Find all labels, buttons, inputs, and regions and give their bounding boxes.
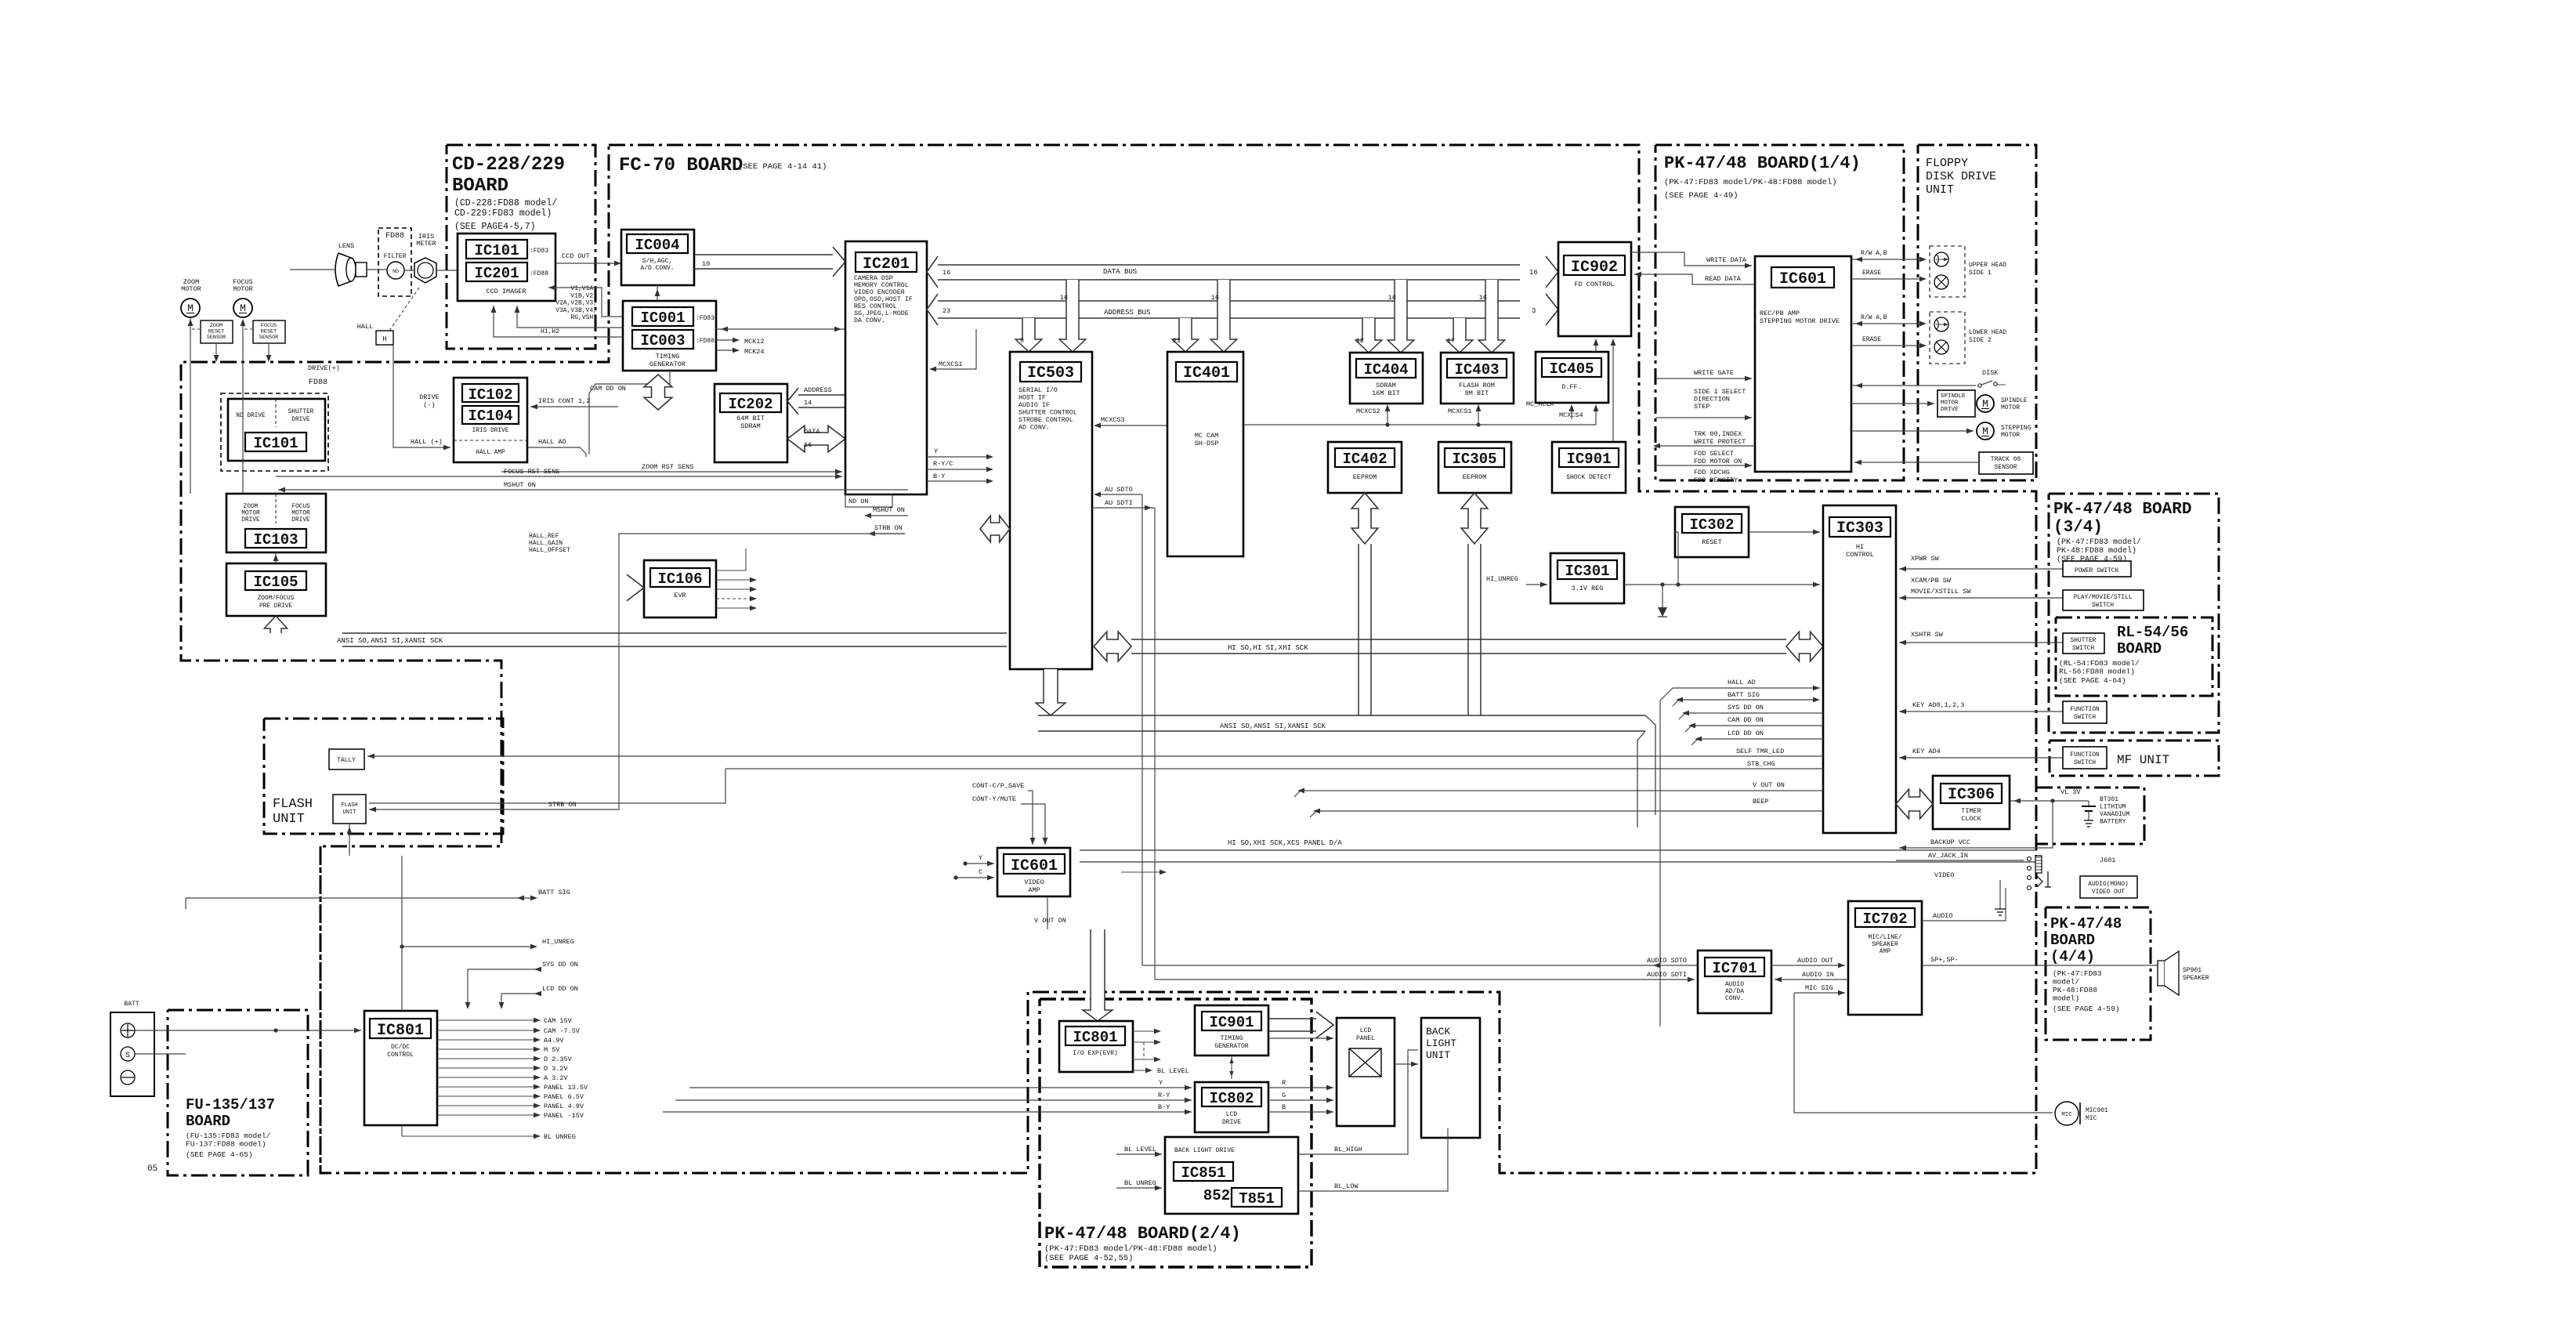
IC601 video amp bbox=[997, 848, 1070, 896]
ground at jack bbox=[2005, 888, 2006, 909]
IC101 ND/shutter drive bbox=[221, 393, 328, 471]
svg-text:SIDE 1: SIDE 1 bbox=[1969, 270, 1992, 277]
svg-text:HALL: HALL bbox=[357, 323, 373, 331]
svg-text:AU SDTO: AU SDTO bbox=[1105, 486, 1133, 494]
svg-text:UNIT: UNIT bbox=[343, 809, 356, 816]
svg-text:ZOOM/FOCUS: ZOOM/FOCUS bbox=[258, 596, 295, 602]
small double arrow IC901-IC802 bbox=[1231, 1055, 1232, 1079]
svg-text:FDD XDCHG: FDD XDCHG bbox=[1694, 469, 1730, 476]
svg-text:C: C bbox=[979, 868, 982, 876]
svg-text:GENERATOR: GENERATOR bbox=[1214, 1043, 1248, 1050]
svg-text:SPEAKER: SPEAKER bbox=[2183, 975, 2209, 982]
svg-text:ND ON: ND ON bbox=[848, 498, 869, 505]
svg-text:(CD-228:FD88 model/: (CD-228:FD88 model/ bbox=[454, 198, 557, 208]
svg-text:AUDIO(MONO): AUDIO(MONO) bbox=[2088, 882, 2128, 888]
IC106 outputs bbox=[716, 549, 746, 570]
svg-text:16: 16 bbox=[942, 269, 950, 277]
svg-text:FC-70 BOARD: FC-70 BOARD bbox=[619, 155, 743, 176]
svg-text:AD/DA: AD/DA bbox=[1725, 988, 1744, 995]
rail PANEL 6.5V bbox=[437, 1095, 537, 1097]
svg-text:HALL_OFFSET: HALL_OFFSET bbox=[529, 547, 570, 554]
svg-text:Y: Y bbox=[1159, 1079, 1163, 1087]
svg-text:MSHUT ON: MSHUT ON bbox=[873, 506, 905, 514]
svg-text:IC106: IC106 bbox=[657, 570, 702, 588]
svg-text:STROBE CONTROL: STROBE CONTROL bbox=[1018, 417, 1073, 424]
svg-text:CAM DD ON: CAM DD ON bbox=[590, 385, 626, 393]
svg-text:(SEE PAGE 4-59): (SEE PAGE 4-59) bbox=[2053, 1005, 2120, 1013]
svg-text:IC902: IC902 bbox=[1571, 259, 1618, 277]
wires batt to IC801 bbox=[135, 1030, 361, 1031]
svg-text:EEPROM: EEPROM bbox=[1353, 473, 1377, 481]
svg-text:IC601: IC601 bbox=[1011, 857, 1058, 875]
svg-text:BEEP: BEEP bbox=[1753, 798, 1768, 806]
bundle verticals left of IC303 bbox=[1660, 694, 1666, 1027]
svg-text:SPEAKER: SPEAKER bbox=[1872, 941, 1898, 948]
svg-text:SPINDLE: SPINDLE bbox=[2001, 397, 2028, 404]
svg-text:WRITE GATE: WRITE GATE bbox=[1694, 369, 1734, 377]
svg-text::FD83: :FD83 bbox=[530, 248, 548, 255]
svg-text:IC851: IC851 bbox=[1181, 1164, 1225, 1182]
svg-text:XPWR SW: XPWR SW bbox=[1911, 555, 1940, 563]
svg-text:CD-228/229: CD-228/229 bbox=[452, 154, 565, 176]
IC402 EEPROM bbox=[1328, 442, 1402, 493]
svg-text:05: 05 bbox=[147, 1164, 157, 1174]
svg-text:3.1V REG: 3.1V REG bbox=[1572, 585, 1604, 592]
svg-text:(SEE PAGE 4-64): (SEE PAGE 4-64) bbox=[2059, 676, 2126, 685]
svg-text:IRIS CONT 1,2: IRIS CONT 1,2 bbox=[538, 397, 590, 405]
svg-text:STEPPING: STEPPING bbox=[2001, 425, 2031, 432]
svg-text:MCXCS1: MCXCS1 bbox=[1448, 407, 1472, 415]
svg-text:23: 23 bbox=[942, 307, 950, 315]
svg-text:(FU-135:FD83 model/: (FU-135:FD83 model/ bbox=[186, 1132, 271, 1140]
svg-text:DRIVE(+): DRIVE(+) bbox=[308, 364, 340, 372]
svg-text:DRIVE: DRIVE bbox=[1941, 407, 1959, 413]
svg-text:BATT: BATT bbox=[124, 1001, 139, 1008]
svg-text:A 3.2V: A 3.2V bbox=[544, 1074, 569, 1082]
svg-text:CCD OUT: CCD OUT bbox=[562, 252, 590, 260]
svg-text:DRIVE: DRIVE bbox=[241, 517, 260, 523]
spindle motor drive bbox=[1937, 390, 1975, 417]
svg-text:PANEL 6.5V: PANEL 6.5V bbox=[544, 1093, 584, 1101]
svg-text:AUDIO: AUDIO bbox=[1725, 981, 1744, 988]
svg-text:PK-48:FD88 model): PK-48:FD88 model) bbox=[2057, 546, 2136, 556]
svg-text:MCXCS4: MCXCS4 bbox=[1559, 411, 1583, 419]
svg-text:LCD DD ON: LCD DD ON bbox=[542, 985, 578, 993]
svg-text:PK-47/48 BOARD(2/4): PK-47/48 BOARD(2/4) bbox=[1044, 1224, 1241, 1244]
board PK-47/48 (1/4) outline bbox=[1655, 145, 1904, 480]
BL UNREG out bbox=[402, 1125, 537, 1136]
wire TG to IC201 bidirectional bbox=[716, 328, 845, 330]
svg-text:VANADIUM: VANADIUM bbox=[2100, 811, 2130, 818]
svg-text:AUDIO OUT: AUDIO OUT bbox=[1797, 957, 1833, 965]
svg-text:IC801: IC801 bbox=[377, 1022, 424, 1040]
svg-text:SG,JPEG,L-MODE: SG,JPEG,L-MODE bbox=[854, 310, 909, 317]
svg-text:MC_HCLK: MC_HCLK bbox=[1526, 400, 1555, 408]
svg-text:DRIVE: DRIVE bbox=[419, 393, 440, 401]
board RL-54/56 outline bbox=[2056, 617, 2212, 696]
svg-text:BATT SIG: BATT SIG bbox=[538, 889, 570, 896]
svg-text:IC105: IC105 bbox=[253, 574, 298, 591]
svg-text:D.FF.: D.FF. bbox=[1561, 383, 1582, 391]
svg-text:(SEE PAGE 4-14 41): (SEE PAGE 4-14 41) bbox=[738, 162, 827, 172]
IC201 camera DSP bbox=[845, 241, 927, 494]
svg-text:IC802: IC802 bbox=[1209, 1090, 1254, 1107]
svg-text:S/H,AGC,: S/H,AGC, bbox=[642, 258, 672, 265]
svg-text:UNIT: UNIT bbox=[273, 812, 305, 827]
svg-text:LCD DD ON: LCD DD ON bbox=[1728, 730, 1764, 737]
jack symbol bbox=[2028, 857, 2031, 861]
lens bbox=[290, 269, 335, 270]
svg-text:UNIT: UNIT bbox=[1426, 1049, 1450, 1061]
bus ADDRESS 14 bbox=[787, 388, 798, 415]
svg-text:KEY AD4: KEY AD4 bbox=[1912, 748, 1941, 755]
svg-text:LENS: LENS bbox=[338, 242, 354, 250]
svg-text:IC901: IC901 bbox=[1209, 1014, 1254, 1031]
svg-text:V2A,V2B,V3,: V2A,V2B,V3, bbox=[555, 300, 597, 307]
svg-text:D 3.2V: D 3.2V bbox=[544, 1065, 569, 1073]
svg-text:IC402: IC402 bbox=[1342, 451, 1387, 468]
svg-text:HOST IF: HOST IF bbox=[1018, 395, 1046, 402]
svg-text:16: 16 bbox=[1529, 269, 1538, 277]
svg-text:MOTOR: MOTOR bbox=[1941, 400, 1959, 407]
svg-text:M: M bbox=[187, 302, 194, 314]
svg-text:(-): (-) bbox=[423, 401, 435, 409]
svg-text:AV_JACK_IN: AV_JACK_IN bbox=[1928, 852, 1968, 860]
bus 10 IC004 to IC201 bbox=[694, 254, 833, 255]
svg-text:FU-135/137: FU-135/137 bbox=[186, 1096, 275, 1113]
svg-text:D 2.35V: D 2.35V bbox=[544, 1055, 573, 1063]
svg-text:(4/4): (4/4) bbox=[2050, 948, 2095, 965]
rail M 5V bbox=[437, 1048, 537, 1050]
svg-text:STB_CHG: STB_CHG bbox=[1747, 760, 1775, 768]
MIC mic901 bbox=[2055, 1102, 2079, 1125]
IC503 serial I/O bbox=[1010, 352, 1092, 669]
svg-text:64M BIT: 64M BIT bbox=[736, 415, 765, 422]
svg-text:TIMING: TIMING bbox=[656, 353, 680, 360]
svg-text:MCK24: MCK24 bbox=[744, 348, 765, 356]
bus drop to IC404 (12) bbox=[1355, 318, 1382, 353]
svg-text:SHUTTER: SHUTTER bbox=[288, 409, 314, 415]
svg-text:RESET: RESET bbox=[1702, 538, 1722, 546]
IC801 outputs small arrows bbox=[1133, 1030, 1158, 1032]
svg-text:model): model) bbox=[2053, 994, 2079, 1003]
svg-text:PK-48:FD88: PK-48:FD88 bbox=[2053, 986, 2097, 994]
svg-text:CAM 15V: CAM 15V bbox=[544, 1017, 573, 1025]
lower head side 2 bbox=[1930, 312, 1965, 364]
svg-text:DIRECTION: DIRECTION bbox=[1694, 396, 1730, 404]
svg-text:BOARD: BOARD bbox=[186, 1113, 230, 1130]
svg-text:MOTOR: MOTOR bbox=[233, 285, 253, 293]
IC004 S/H AGC A/D bbox=[621, 230, 694, 285]
svg-text:(SEE PAGE 4-49): (SEE PAGE 4-49) bbox=[1664, 191, 1738, 201]
shutter switch bbox=[2063, 633, 2104, 654]
play/movie/still switch bbox=[2063, 590, 2144, 610]
svg-text:IC301: IC301 bbox=[1565, 563, 1609, 580]
svg-text:XSHTR SW: XSHTR SW bbox=[1911, 631, 1944, 639]
svg-text::FD88: :FD88 bbox=[696, 338, 715, 345]
svg-text:SYS DD ON: SYS DD ON bbox=[1728, 704, 1764, 712]
rail A4.9V bbox=[437, 1039, 537, 1041]
svg-text:G: G bbox=[1282, 1092, 1286, 1099]
svg-text:HI_UNREG: HI_UNREG bbox=[1486, 575, 1518, 583]
svg-text:IC001: IC001 bbox=[640, 310, 685, 327]
IC404 SDRAM 16M BIT bbox=[1350, 353, 1423, 404]
board FC-70 outline bbox=[181, 145, 2036, 1173]
rail PANEL -15V bbox=[437, 1114, 537, 1116]
svg-text:PK-47/48 BOARD: PK-47/48 BOARD bbox=[2053, 501, 2191, 519]
svg-text:R-Y: R-Y bbox=[1158, 1092, 1170, 1099]
svg-text:IC401: IC401 bbox=[1183, 364, 1230, 382]
svg-text:DRIVE: DRIVE bbox=[291, 517, 310, 523]
rail D 3.2V bbox=[437, 1067, 537, 1069]
svg-text:T851: T851 bbox=[1239, 1190, 1275, 1208]
svg-text:HI SO,XHI SCK,XCS PANEL D/A: HI SO,XHI SCK,XCS PANEL D/A bbox=[1228, 839, 1342, 847]
back light unit bbox=[1421, 1018, 1480, 1138]
svg-text:RL-56:FD88 model): RL-56:FD88 model) bbox=[2059, 668, 2135, 676]
svg-text:SENSOR: SENSOR bbox=[1995, 464, 2017, 471]
svg-text:ND: ND bbox=[393, 269, 399, 274]
svg-text:SP901: SP901 bbox=[2183, 967, 2202, 974]
svg-text:PRE DRIVE: PRE DRIVE bbox=[259, 603, 292, 610]
svg-text:CONT-C/P_SAVE: CONT-C/P_SAVE bbox=[972, 782, 1024, 790]
svg-text:AUDIO IF: AUDIO IF bbox=[1018, 402, 1050, 409]
svg-text:DISK: DISK bbox=[1982, 369, 1999, 377]
svg-text:M: M bbox=[1982, 425, 1988, 437]
board CD-228/229 outline bbox=[447, 145, 595, 349]
svg-text:IC404: IC404 bbox=[1363, 361, 1408, 378]
svg-text:VL 3V: VL 3V bbox=[2060, 788, 2081, 796]
svg-text:MOTOR: MOTOR bbox=[2001, 432, 2020, 439]
svg-text:R/W A,B: R/W A,B bbox=[1861, 314, 1887, 321]
svg-text:DISK DRIVE: DISK DRIVE bbox=[1926, 170, 1996, 183]
rail CAM -7.5V bbox=[437, 1030, 537, 1031]
svg-text:SELF TMR_LED: SELF TMR_LED bbox=[1736, 748, 1784, 755]
svg-text:SIDE 1 SELECT: SIDE 1 SELECT bbox=[1694, 388, 1746, 396]
svg-text:M 5V: M 5V bbox=[544, 1046, 560, 1054]
svg-text:FOCUS: FOCUS bbox=[291, 504, 310, 510]
svg-text:ANSI SO,ANSI SI,XANSI SCK: ANSI SO,ANSI SI,XANSI SCK bbox=[337, 637, 443, 645]
IC601 REC/PB AMP stepping motor drive bbox=[1755, 256, 1851, 472]
svg-text:PANEL 4.9V: PANEL 4.9V bbox=[544, 1103, 584, 1110]
wires motors to IC103 bbox=[190, 317, 251, 491]
svg-text:READ DATA: READ DATA bbox=[1705, 275, 1742, 283]
svg-text:STEP: STEP bbox=[1694, 403, 1709, 411]
bus drop to IC401 (23) bbox=[1172, 318, 1199, 352]
svg-text:GENERATOR: GENERATOR bbox=[649, 360, 686, 368]
svg-text:LIGHT: LIGHT bbox=[1426, 1037, 1456, 1049]
rail D 2.35V bbox=[437, 1058, 537, 1059]
svg-text:BACK LIGHT DRIVE: BACK LIGHT DRIVE bbox=[1174, 1147, 1235, 1154]
svg-text:16: 16 bbox=[1211, 294, 1219, 302]
svg-text:HALL (+): HALL (+) bbox=[411, 438, 443, 446]
svg-text:A4.9V: A4.9V bbox=[544, 1037, 564, 1045]
svg-text:(PK-47:FD83 model/: (PK-47:FD83 model/ bbox=[2057, 538, 2141, 547]
IC401 MC CAM SH-DSP bbox=[1167, 352, 1243, 556]
svg-text:17: 17 bbox=[1447, 337, 1455, 345]
svg-text:IC101: IC101 bbox=[474, 242, 519, 259]
svg-text:FD88: FD88 bbox=[385, 232, 404, 241]
svg-text:FLASH: FLASH bbox=[273, 797, 313, 812]
batt terminal bbox=[110, 1012, 154, 1096]
IC801 DC/DC control bbox=[364, 1011, 437, 1125]
bus drop to IC404 (16) bbox=[1387, 280, 1414, 353]
svg-text:ZOOM RST SENS: ZOOM RST SENS bbox=[642, 463, 693, 471]
track 00 sensor bbox=[1979, 452, 2033, 474]
svg-text:TIMER: TIMER bbox=[1961, 807, 1981, 815]
svg-text::FD83: :FD83 bbox=[696, 315, 715, 322]
svg-text:FLASH ROM: FLASH ROM bbox=[1459, 382, 1495, 389]
svg-text:PLAY/MOVIE/STILL: PLAY/MOVIE/STILL bbox=[2074, 595, 2133, 601]
AU SDTO/SDTI verticals down to IC701 bbox=[1141, 494, 1143, 965]
bus drop to IC403 (16) bbox=[1478, 280, 1505, 353]
svg-text:FDD SELECT: FDD SELECT bbox=[1694, 450, 1734, 458]
svg-text:SWITCH: SWITCH bbox=[2072, 646, 2094, 652]
svg-text:SH-DSP: SH-DSP bbox=[1195, 440, 1219, 447]
svg-text:CAMERA DSP: CAMERA DSP bbox=[854, 275, 893, 282]
svg-text:BL UNREG: BL UNREG bbox=[544, 1133, 576, 1141]
svg-text:CONTROL: CONTROL bbox=[387, 1052, 414, 1059]
svg-text:CD-229:FD83 model): CD-229:FD83 model) bbox=[454, 208, 552, 219]
svg-text:PK-47/48: PK-47/48 bbox=[2050, 915, 2122, 932]
svg-text:IC103: IC103 bbox=[253, 531, 298, 549]
svg-text:DRIVE: DRIVE bbox=[291, 417, 310, 423]
svg-text:IC701: IC701 bbox=[1712, 960, 1757, 977]
svg-text:LOWER HEAD: LOWER HEAD bbox=[1969, 329, 2006, 336]
svg-text:FOCUS RST SENS: FOCUS RST SENS bbox=[504, 468, 559, 476]
svg-text:FU-137:FD88 model): FU-137:FD88 model) bbox=[186, 1140, 266, 1149]
svg-text:SDRAM: SDRAM bbox=[740, 422, 761, 430]
wires from IC106/EVR right to IC503 area verticals bbox=[662, 549, 664, 862]
svg-text:RL-54/56: RL-54/56 bbox=[2117, 624, 2188, 641]
svg-text:SERIAL I/O: SERIAL I/O bbox=[1018, 386, 1058, 394]
svg-text:MC CAM: MC CAM bbox=[1195, 432, 1219, 440]
svg-text:IC302: IC302 bbox=[1689, 516, 1734, 534]
svg-text:BL_LOW: BL_LOW bbox=[1334, 1182, 1359, 1190]
svg-text:KEY AD0,1,2,3: KEY AD0,1,2,3 bbox=[1912, 701, 1964, 709]
svg-text:SHOCK DETECT: SHOCK DETECT bbox=[1566, 474, 1612, 481]
svg-text:9: 9 bbox=[1020, 337, 1024, 345]
IC306 timer clock bbox=[1933, 776, 2010, 829]
svg-text:HI SO,HI SI,XHI SCK: HI SO,HI SI,XHI SCK bbox=[1228, 644, 1308, 652]
svg-text:16: 16 bbox=[804, 441, 812, 449]
IC801 I/O EXP(EVR) bbox=[1059, 1021, 1133, 1072]
svg-text:BL LEVEL: BL LEVEL bbox=[1157, 1067, 1189, 1075]
IC103 zoom/focus motor drive bbox=[226, 494, 326, 552]
svg-text:AUDIO: AUDIO bbox=[1933, 912, 1953, 920]
svg-text:SDRAM: SDRAM bbox=[1376, 382, 1396, 389]
svg-text:EVR: EVR bbox=[674, 592, 686, 599]
svg-text:M: M bbox=[1982, 398, 1988, 410]
big hollow arrow down to IC801 I/O EXP bbox=[1083, 929, 1113, 1021]
CCD imager IC101/IC201 bbox=[458, 234, 555, 301]
svg-text:V OUT ON: V OUT ON bbox=[1753, 781, 1785, 789]
svg-text:MIC: MIC bbox=[2061, 1112, 2072, 1118]
svg-text:HALL AD: HALL AD bbox=[538, 438, 566, 446]
svg-text:12: 12 bbox=[1356, 337, 1364, 345]
svg-text:MOVIE/XSTILL SW: MOVIE/XSTILL SW bbox=[1911, 588, 1971, 596]
svg-text:B-Y: B-Y bbox=[933, 473, 945, 480]
IC302 reset bbox=[1675, 507, 1749, 557]
svg-text:FLOPPY: FLOPPY bbox=[1926, 157, 1968, 170]
svg-text:FLASH: FLASH bbox=[341, 802, 357, 809]
svg-text:SWITCH: SWITCH bbox=[2074, 760, 2096, 766]
svg-text:(PK-47:FD83 model/PK-48:FD88 m: (PK-47:FD83 model/PK-48:FD88 model) bbox=[1044, 1244, 1217, 1254]
svg-text:16M BIT: 16M BIT bbox=[1372, 389, 1400, 397]
vertical wires x 926/977 bbox=[725, 769, 726, 803]
svg-text:DRIVE: DRIVE bbox=[1222, 1119, 1241, 1126]
double arrow below TG bbox=[644, 375, 672, 410]
svg-text:REC/PB AMP: REC/PB AMP bbox=[1760, 310, 1800, 317]
svg-text:MCK12: MCK12 bbox=[744, 338, 765, 346]
svg-text:SENSOR: SENSOR bbox=[207, 335, 226, 341]
ANSI SO,ANSI SI,XANSI SCK bus right bbox=[1038, 715, 1645, 716]
svg-text:8M BIT: 8M BIT bbox=[1465, 389, 1489, 397]
svg-text::FD88: :FD88 bbox=[530, 270, 548, 277]
svg-text:BOARD: BOARD bbox=[2117, 640, 2162, 657]
power switch bbox=[2063, 561, 2131, 577]
svg-text:CCD IMAGER: CCD IMAGER bbox=[486, 288, 526, 295]
IC305 EEPROM bbox=[1438, 442, 1511, 493]
ADDRESS BUS bbox=[938, 300, 1520, 302]
svg-text:EEPROM: EEPROM bbox=[1463, 473, 1487, 481]
svg-text:SP+,SP-: SP+,SP- bbox=[1930, 956, 1959, 964]
svg-text:STRB ON: STRB ON bbox=[874, 524, 903, 532]
svg-text:SHUTTER: SHUTTER bbox=[2071, 638, 2097, 644]
IC403 FLASH ROM 8M BIT bbox=[1441, 353, 1514, 404]
svg-text:A/D CONV.: A/D CONV. bbox=[640, 265, 674, 272]
bus drop to IC403 (17) bbox=[1446, 318, 1473, 353]
svg-text:(3/4): (3/4) bbox=[2053, 519, 2103, 537]
wires IC301/IC302 to IC303 bbox=[1624, 584, 1820, 585]
svg-text:WRITE DATA: WRITE DATA bbox=[1706, 256, 1747, 264]
svg-text:AMP: AMP bbox=[1028, 886, 1040, 894]
svg-text:HALL_REF: HALL_REF bbox=[529, 533, 559, 540]
svg-text:ADDRESS BUS: ADDRESS BUS bbox=[1104, 309, 1150, 317]
MCK12 MCK24 outputs bbox=[716, 339, 736, 341]
svg-text:UNIT: UNIT bbox=[1926, 183, 1954, 197]
IC105 zoom/focus pre drive bbox=[226, 563, 326, 616]
svg-text:DATA: DATA bbox=[804, 428, 820, 436]
bus drop to IC401 (16) bbox=[1210, 280, 1237, 352]
double arrow IC503 left bbox=[980, 516, 1010, 542]
svg-text:TALLY: TALLY bbox=[337, 758, 356, 764]
svg-text:VIDEO: VIDEO bbox=[1024, 878, 1044, 886]
svg-text:IC004: IC004 bbox=[635, 237, 679, 254]
svg-text:H1,H2: H1,H2 bbox=[541, 328, 559, 335]
svg-text:IC503: IC503 bbox=[1027, 364, 1074, 382]
svg-text:IC403: IC403 bbox=[1454, 361, 1499, 378]
svg-text:PANEL 13.5V: PANEL 13.5V bbox=[544, 1084, 588, 1092]
svg-text:SENSOR: SENSOR bbox=[259, 335, 278, 341]
svg-text:IC601: IC601 bbox=[1779, 270, 1826, 288]
svg-text:BL UNREG: BL UNREG bbox=[1124, 1179, 1156, 1187]
svg-text:BATTERY: BATTERY bbox=[2100, 819, 2126, 826]
svg-text:AUDIO IN: AUDIO IN bbox=[1802, 971, 1834, 979]
svg-text:FUNCTION: FUNCTION bbox=[2070, 707, 2100, 713]
svg-text:WRITE PROTECT: WRITE PROTECT bbox=[1694, 438, 1746, 446]
ANSI bus left bbox=[342, 632, 1007, 634]
svg-text:Y: Y bbox=[979, 854, 982, 862]
IC701 audio AD/DA bbox=[1698, 950, 1771, 1013]
IC202 64M BIT SDRAM bbox=[715, 384, 787, 462]
svg-text:BOARD: BOARD bbox=[2050, 932, 2095, 949]
svg-text:RES CONTROL: RES CONTROL bbox=[854, 303, 897, 310]
svg-text:STRB ON: STRB ON bbox=[548, 801, 577, 809]
svg-text:AMP: AMP bbox=[1880, 948, 1891, 955]
svg-text:BOARD: BOARD bbox=[452, 176, 508, 197]
svg-text:ERASE: ERASE bbox=[1862, 336, 1881, 343]
svg-text:IC003: IC003 bbox=[640, 332, 685, 349]
